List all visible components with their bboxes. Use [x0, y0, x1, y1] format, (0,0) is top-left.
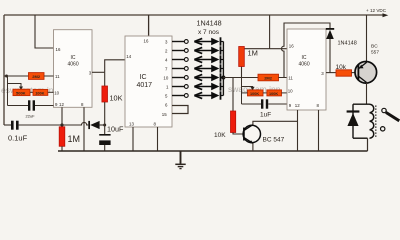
preset 100K (right): [248, 90, 264, 96]
svg-text:16: 16: [289, 44, 294, 49]
preset wiper stub: [8, 84, 22, 88]
wire row9 right: [242, 103, 262, 105]
svg-text:1M: 1M: [248, 49, 258, 58]
relay contact pole: [382, 108, 386, 112]
svg-text:+ 12 VDC: + 12 VDC: [366, 8, 387, 13]
ground rail: [58, 150, 368, 152]
IC1 pin labels: [54, 47, 92, 107]
IC1 4060 box: [54, 30, 93, 108]
output row pin5: terminal, arrow, diode: [172, 91, 223, 99]
vertical net wire: [7, 76, 9, 106]
svg-text:100K: 100K: [269, 92, 278, 96]
IC3 4060 box: [287, 29, 326, 110]
svg-text:IC: IC: [71, 55, 76, 61]
relay to ground: [367, 138, 369, 151]
svg-text:22uF: 22uF: [26, 114, 36, 119]
wire: rail to BC557 emitter: [366, 15, 368, 62]
svg-text:500K: 500K: [16, 90, 26, 95]
transistor BC547: [243, 125, 260, 144]
IC3 pin labels: [288, 44, 325, 108]
IC1 pin8 wire to ground: [83, 107, 85, 151]
capacitor 10uF (polarized): [99, 134, 110, 145]
output row pin4: terminal, arrow, diode: [172, 55, 223, 63]
left border wire: [3, 15, 5, 125]
transistor BC557: [355, 62, 377, 84]
wire 10uF to ground: [104, 145, 106, 151]
BC547 collector wire: [253, 121, 298, 124]
node dot: [60, 123, 63, 126]
wire 2M2 to pin11: [44, 75, 54, 77]
svg-text:12: 12: [295, 103, 300, 108]
svg-text:10k: 10k: [336, 64, 347, 71]
wire: rail to IC2 pin16: [148, 15, 150, 36]
junction to 10uF: [104, 125, 106, 134]
svg-text:x 7 nos: x 7 nos: [198, 29, 220, 36]
+12V supply rail: [4, 14, 386, 16]
output row pin10: terminal, arrow, diode: [172, 73, 223, 81]
capacitor 22uF: [28, 100, 35, 110]
resistor 2M2 (right): [258, 74, 279, 81]
svg-text:IC: IC: [302, 55, 307, 61]
svg-text:15: 15: [162, 112, 167, 117]
loop wire over IC3 (pin11 to diode) with hop: [282, 23, 331, 78]
wire 1M to ground rail: [61, 146, 63, 151]
svg-text:10: 10: [288, 89, 293, 94]
capacitor 0.1uF: [11, 121, 19, 130]
ground symbol: [175, 151, 185, 169]
IC1 pin12 wire: [61, 107, 63, 125]
preset wiper stub (right): [242, 87, 253, 88]
wire IC1 pin3: [92, 71, 105, 73]
wire 10K to diode junction: [104, 102, 106, 125]
wire row10 mid: [30, 91, 33, 93]
IC2 pin13 wire: [132, 127, 134, 151]
wire diode to pin3 row: [329, 39, 331, 73]
resistor 10K (middle): [102, 86, 108, 102]
svg-text:100K: 100K: [35, 91, 44, 95]
svg-text:10: 10: [163, 75, 168, 80]
supply arrowhead: [383, 13, 389, 17]
svg-text:4060: 4060: [299, 62, 310, 68]
output row pin7: terminal, arrow, diode: [172, 64, 223, 72]
capacitor 1uF: [261, 99, 268, 108]
svg-text:12: 12: [59, 102, 64, 107]
svg-text:4060: 4060: [68, 62, 79, 68]
IC2 4017 box: [125, 36, 172, 127]
wire diode to junction: [100, 124, 105, 126]
svg-text:0.1uF: 0.1uF: [8, 134, 28, 143]
svg-text:16: 16: [144, 39, 149, 44]
wire 10K to BC547 base: [233, 133, 243, 135]
wire cap to pin9: [35, 105, 54, 107]
resistor 100K: [33, 89, 48, 95]
node dot on left border, row 11: [5, 75, 8, 78]
relay coil + diode: [353, 104, 370, 138]
resistor 10k (right): [336, 70, 352, 76]
svg-text:10uF: 10uF: [107, 125, 124, 134]
resistor 1M (left): [59, 127, 65, 147]
wire pin3 junction down: [104, 72, 106, 86]
svg-text:557: 557: [371, 50, 379, 56]
bottom-left branch: 0.1uF: [4, 124, 11, 126]
output row pin1: terminal, arrow, diode: [172, 82, 223, 90]
svg-text:4017: 4017: [137, 82, 153, 89]
svg-text:14: 14: [126, 54, 131, 59]
wire 100K to pin10: [48, 91, 54, 93]
svg-text:13: 13: [129, 121, 134, 126]
resistor 2M2: [29, 73, 45, 80]
wire cap to node: [19, 124, 62, 126]
wire to IC2 pin14 (clock): [105, 60, 125, 73]
svg-text:1N4148: 1N4148: [338, 41, 357, 47]
junction dot on rail: [221, 76, 225, 80]
contact terminal: [381, 127, 385, 131]
IC2 pin8 wire: [157, 127, 159, 151]
svg-text:2M2: 2M2: [264, 76, 273, 81]
svg-text:16: 16: [56, 47, 61, 52]
svg-text:11: 11: [55, 74, 60, 79]
svg-text:2M2: 2M2: [32, 74, 41, 79]
svg-text:1M: 1M: [68, 134, 81, 144]
svg-text:BC 547: BC 547: [263, 137, 285, 144]
wire rail junction to IC3 pin 11 row: [223, 77, 258, 79]
diode 1N4148 (vertical, cathode up): [326, 28, 334, 39]
svg-text:1uF: 1uF: [260, 112, 271, 119]
flyback diode (cathode up): [347, 110, 360, 126]
wire node to diode with hop over pin8 wire: [62, 122, 88, 125]
resistor 1M (right): [239, 47, 245, 67]
supply node horizontal to IC3 pin16: [240, 48, 287, 50]
relay coil loops: [370, 104, 374, 138]
output row pin3: terminal, arrow, diode: [172, 37, 223, 45]
wire 1M bottom to row: [241, 66, 243, 78]
BC547 emitter to ground: [252, 143, 254, 151]
IC3 pin12 wire: [297, 110, 299, 151]
IC3 pin3 wire: [326, 72, 336, 74]
preset 500K: [13, 89, 30, 95]
output row pin2: terminal, arrow, diode: [172, 46, 223, 54]
10K base resistor drop: [232, 78, 234, 112]
relay core dashed line: [375, 106, 377, 138]
resistor 100K (right second): [267, 90, 282, 96]
svg-text:10K: 10K: [110, 94, 123, 103]
vertical net wire: [241, 78, 243, 105]
IC2 pin labels: [126, 39, 169, 127]
wire: rail to IC1 pin16: [35, 15, 54, 48]
BC557 collector to relay: [366, 83, 368, 105]
svg-text:BC: BC: [371, 44, 378, 50]
svg-text:100K: 100K: [250, 92, 259, 96]
contact armature: [386, 112, 399, 120]
diode D1 (points left): [88, 121, 99, 129]
wire: rail down to IC3 supply node: [269, 15, 271, 49]
wire row9 to cap 22uF: [8, 105, 29, 107]
svg-text:10: 10: [54, 91, 59, 96]
svg-text:10K: 10K: [214, 132, 226, 139]
watermark: [1, 84, 281, 95]
wire row11 left: [4, 75, 29, 77]
IC3 pin8 wire: [318, 110, 320, 151]
svg-text:11: 11: [288, 76, 293, 81]
IC2 pin6-15 loop: [172, 106, 188, 114]
svg-text:IC: IC: [140, 74, 147, 81]
diode common rail: [222, 42, 224, 96]
svg-text:1N4148: 1N4148: [197, 19, 222, 28]
